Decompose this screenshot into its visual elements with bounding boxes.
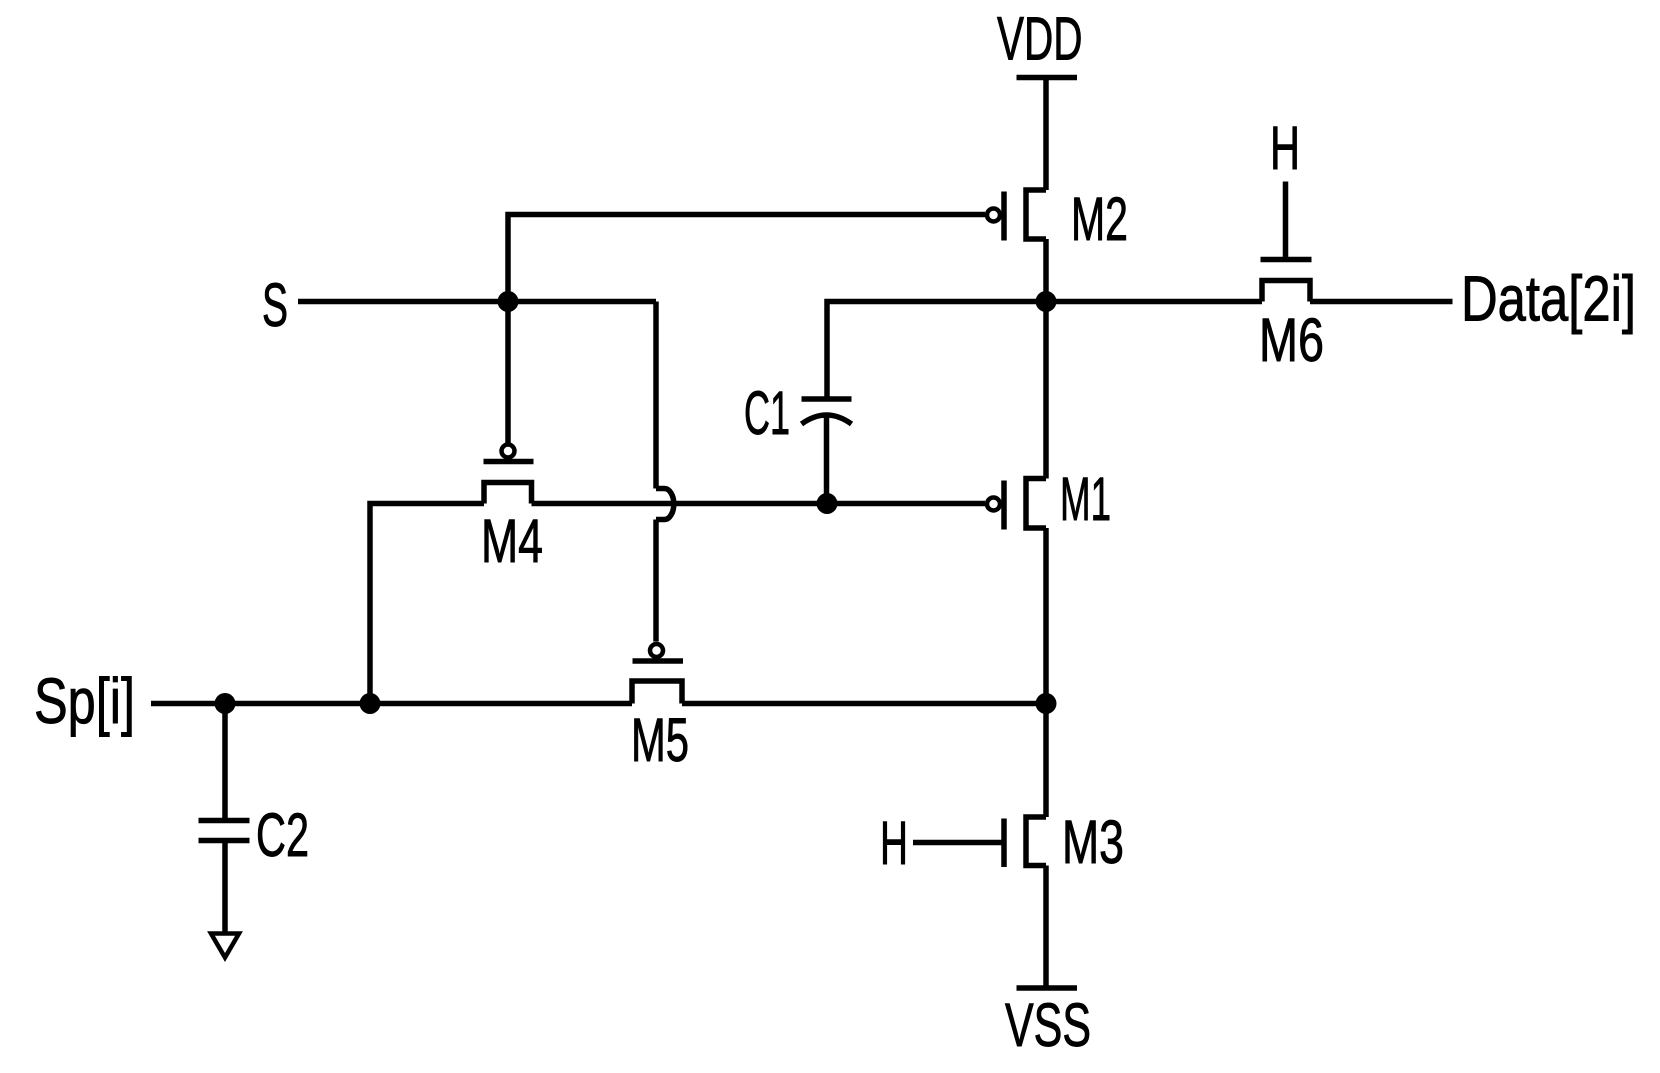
wire M3 gate to H xyxy=(913,840,1004,846)
svg-text:M4: M4 xyxy=(481,507,543,575)
wire M4 gate up to S junction xyxy=(505,302,511,444)
ground xyxy=(211,934,239,958)
svg-text:H: H xyxy=(1270,114,1300,182)
transistor M3 (NMOS) xyxy=(1004,817,1046,867)
wire M6 to Data[2i] xyxy=(1310,299,1453,305)
wire S corner down to crossover xyxy=(653,302,659,489)
transistor M1 (PMOS) xyxy=(987,479,1046,530)
svg-text:M1: M1 xyxy=(1060,465,1111,533)
capacitor C1 xyxy=(802,399,852,504)
wire node A to M1 drain xyxy=(1043,302,1049,479)
junction dot node B (Sp line / M1-M3) xyxy=(1036,693,1057,714)
junction dot C1 / M1 gate xyxy=(817,493,838,514)
wire M2 source to node A xyxy=(1043,239,1049,302)
wire M1 source to node B xyxy=(1043,528,1049,704)
wire node B to M3 drain xyxy=(1043,704,1049,818)
svg-text:Sp[i]: Sp[i] xyxy=(34,665,135,737)
capacitor C2 xyxy=(199,821,250,841)
svg-text:M2: M2 xyxy=(1071,185,1128,253)
svg-text:Data[2i]: Data[2i] xyxy=(1461,263,1636,335)
wire M2 gate to S node xyxy=(508,215,985,302)
svg-text:M3: M3 xyxy=(1062,808,1124,876)
wire S xyxy=(298,299,656,305)
junction dot Sp[i] / C2 xyxy=(215,693,236,714)
transistor M4 (PMOS) xyxy=(484,445,534,504)
wire M3 source to VSS xyxy=(1043,866,1049,989)
svg-text:VDD: VDD xyxy=(997,5,1083,73)
power symbol VDD bar xyxy=(1017,75,1078,81)
svg-text:C2: C2 xyxy=(256,801,309,869)
wire crossover to M5 gate xyxy=(653,520,659,642)
wire node A to M6 xyxy=(1046,299,1262,305)
wire C2 to ground xyxy=(222,841,228,934)
svg-text:M5: M5 xyxy=(631,706,689,774)
junction dot node A xyxy=(1036,291,1057,312)
wire Sp[i] to C2 xyxy=(222,704,228,821)
wire crossover hop xyxy=(656,489,674,520)
wire M4 drain to M1 gate xyxy=(532,501,986,507)
svg-text:S: S xyxy=(262,271,288,339)
transistor M2 (PMOS) xyxy=(987,190,1046,241)
wire VDD to M2 drain xyxy=(1043,78,1049,191)
junction dot Sp[i] / M4 source xyxy=(360,693,381,714)
wire M4 source branch and M1 gate line xyxy=(370,504,484,704)
transistor M5 (PMOS) xyxy=(632,644,683,704)
wire M6 gate to H xyxy=(1283,182,1289,260)
transistor M6 (NMOS) xyxy=(1261,260,1312,302)
svg-text:H: H xyxy=(880,809,908,877)
wire Sp[i] left segment xyxy=(151,701,632,707)
junction dot S / M2 gate / M4 gate xyxy=(498,291,519,312)
power symbol VSS bar xyxy=(1017,985,1078,991)
wire Sp[i] right segment xyxy=(682,701,1046,707)
svg-text:M6: M6 xyxy=(1259,306,1324,374)
wire node A to C1 top xyxy=(827,302,1046,400)
svg-text:C1: C1 xyxy=(744,379,790,447)
svg-text:VSS: VSS xyxy=(1005,991,1091,1059)
